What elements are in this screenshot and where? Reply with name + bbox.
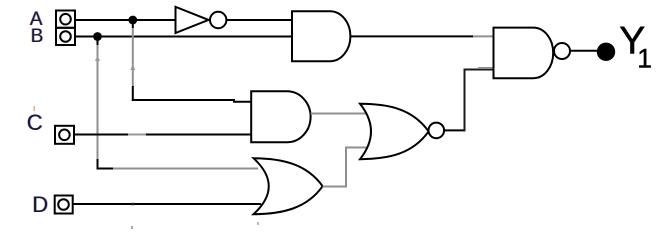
wire AND2 output to NOR upper input <box>311 113 368 115</box>
AND gate U3 (middle) <box>251 91 310 142</box>
junction node on B wire <box>93 32 102 41</box>
NAND gate U6 (AND with bubble) <box>494 28 554 79</box>
label input A <box>29 9 43 30</box>
svg-text:1: 1 <box>637 43 652 73</box>
wire vertical drop from A junction to AND2 upper input <box>132 20 134 101</box>
stray orange tick above C <box>34 106 36 111</box>
output node dot Y1 <box>597 43 615 61</box>
input terminal C (square with circle) <box>55 126 74 144</box>
wire horizontal A branch into AND2 upper input <box>132 100 252 102</box>
wire NAND output to node Y1 <box>570 50 597 52</box>
wire NOR output up to NAND lower input <box>465 70 494 132</box>
NAND gate U6 output bubble <box>554 43 570 59</box>
wire vertical drop from B junction down to OR1 upper input <box>97 37 99 170</box>
input terminal B (square with circle) <box>56 28 75 45</box>
wire AND1 output to NAND input <box>350 35 493 37</box>
wire NOT output to AND1 upper input <box>227 19 293 21</box>
NOR gate U5 output bubble <box>429 123 445 139</box>
gray segment on C wire <box>128 134 146 136</box>
svg-text:D: D <box>32 192 48 217</box>
stray tick below OR gate <box>257 222 259 225</box>
NOR gate U5 (OR with bubble) <box>360 104 429 160</box>
NAND lower input stub <box>478 67 494 69</box>
input terminal D (square with circle) <box>55 196 73 214</box>
wire D terminal to OR1 lower input <box>73 203 261 205</box>
wire B terminal to AND1 lower input <box>75 36 293 38</box>
stray tick bottom left <box>131 226 133 229</box>
input terminal A (square with circle) <box>56 11 75 28</box>
svg-text:B: B <box>31 26 44 47</box>
arrow tick on A drop wire <box>130 64 135 70</box>
NOT gate U1 (inverter triangle) <box>176 7 209 33</box>
label input B <box>30 26 44 47</box>
AND gate U2 (top) <box>292 11 350 61</box>
svg-text:C: C <box>27 110 43 135</box>
wire NOR output <box>444 129 465 131</box>
wire C terminal to AND2 lower input <box>74 134 252 136</box>
wire OR1 output up to NOR lower input <box>323 148 368 187</box>
label input C <box>26 110 43 135</box>
OR gate U4 (bottom) <box>254 158 323 214</box>
wire A terminal to NOT gate input <box>75 19 176 21</box>
arrow tick on B drop wire <box>95 55 100 61</box>
junction node on A wire <box>128 16 137 25</box>
junction remnant dot on D wire <box>132 203 135 206</box>
wire horizontal B branch to OR1 upper input <box>97 168 259 170</box>
NOT gate U1 output bubble <box>210 12 226 28</box>
label input D <box>32 192 49 217</box>
